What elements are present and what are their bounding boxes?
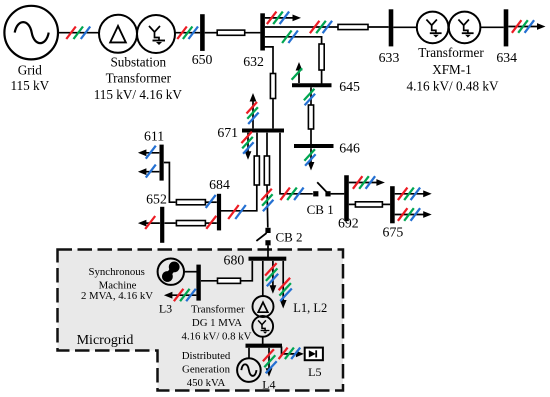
load arrow at bus 646 (down) [310,148,312,166]
wire line segment to bus 632 [244,32,260,34]
svg-text:671: 671 [217,125,238,140]
line segment 652-684 [176,221,205,226]
wire bus 632 toward bus 645 [265,37,322,44]
microgrid boundary box [58,250,344,391]
svg-text:Distributed: Distributed [182,350,231,362]
load arrow L4 (down) [268,348,270,373]
svg-text:650: 650 [192,52,213,67]
svg-text:Grid: Grid [18,62,43,77]
circuit breaker CB 1 contact square left [313,191,318,196]
wire bus 611 right and down to line segment 684-611 [164,163,176,203]
load arrow L1 (down) [272,261,274,290]
bus 632 [260,13,265,50]
svg-text:684: 684 [209,177,230,192]
phase marks a,b,c on 675 arrow 2 [398,208,408,221]
svg-text:Synchronous: Synchronous [89,266,145,278]
wire grid to substation transformer [58,32,100,34]
wire bus 633 to transformer XFM-1 [393,26,417,28]
CB 2 switch blade [256,233,266,241]
svg-text:Substation: Substation [110,55,166,70]
svg-text:Microgrid: Microgrid [77,333,134,348]
bus of distributed generation [246,344,283,348]
phase marks a,b,c before bus 650 [177,27,187,40]
svg-text:450 kVA: 450 kVA [187,377,226,389]
distributed generator symbol [237,358,261,382]
phase marks b,c on line 632-645 [282,31,292,44]
line segment L3-680 [218,278,241,283]
wire line segment to bus 633 [368,26,389,28]
phase mark c on 611 arrow 2 [146,165,156,178]
phase marks a,b,c on L2 arrow [279,278,291,290]
wire bus L3 to line segment [201,280,218,282]
svg-text:4.16 kV/ 0.48 kV: 4.16 kV/ 0.48 kV [407,78,499,93]
transformer DG 1 primary (delta) [253,296,274,317]
svg-text:L1, L2: L1, L2 [293,301,327,315]
svg-text:DG 1 MVA: DG 1 MVA [192,317,242,329]
load arrow at bus 652 (left) [142,222,160,224]
phase mark c on 611 arrow 1 [146,146,156,159]
phase mark a on line 652-684 [206,216,216,229]
wire transformer DG 1 to DG bus [262,337,264,344]
substation transformer T1 primary (delta) [99,15,137,53]
phase marks a,b,c on 671 down arrow [241,132,252,144]
synchronous machine symbol [158,259,184,285]
wire synchronous machine to bus L3 [184,271,197,273]
wire bus 632 to line segment 632-633 [265,26,339,28]
svg-text:680: 680 [224,253,245,268]
bus 646 [294,144,334,148]
load arrow 1 at bus 611 (left) [142,152,159,154]
svg-text:Transformer: Transformer [191,304,245,316]
bus 684 [217,194,221,231]
phase marks a,b,c on 692 load arrow [353,176,363,189]
phase marks a,b,c on 632 load arrow [267,12,277,25]
wire line segment to bus 684 [205,222,216,224]
phase mark b on 645 load arrow [292,68,303,80]
bus 652 [160,207,164,243]
transformer XFM-1 secondary (wye-ground) [449,12,481,44]
phase marks a,b,c on line 671-680 [261,189,272,201]
bus 634 [504,9,509,46]
svg-text:115 kV: 115 kV [10,78,49,93]
svg-text:692: 692 [338,216,359,231]
phase mark a on 652 arrow [145,216,155,229]
load arrow at bus 671 (up) [252,97,254,128]
phase marks a,b,c on L4 arrow [263,349,274,361]
wire line segment to bus 646 [310,129,312,144]
svg-text:633: 633 [379,50,400,65]
circuit breaker CB 2 contact square bottom [265,240,270,245]
phase marks a,b,c on 671 up arrow [247,102,258,114]
svg-text:611: 611 [144,128,164,143]
phase marks a,b,c on L5 wire [279,348,288,360]
svg-text:645: 645 [339,79,360,94]
wire bus 650 to line segment [205,32,218,34]
load arrow at bus 692 (right) [349,182,381,184]
load arrow 2 at bus 611 (left) [142,171,159,173]
bus 633 [389,9,394,46]
wire line segment to bus 684 [205,201,216,203]
bus 650 [200,14,205,51]
phase marks b,c on line 645-646 [304,89,315,100]
load arrow at bus 634 [508,26,541,28]
wire line segment to CB 2 [266,185,269,228]
load arrow L3 (left) [168,294,196,296]
line segment 645-646 [308,105,313,129]
svg-text:Transformer: Transformer [418,45,484,60]
load arrow at bus 645 (up) [298,66,300,83]
line segment 632-633 [338,24,368,29]
svg-text:646: 646 [339,140,360,155]
wire line segment to bus 645 [321,70,323,84]
svg-text:115 kV/ 4.16 kV: 115 kV/ 4.16 kV [94,87,183,102]
wire bus 692 to line segment 692-675 [349,203,356,205]
wire DG bus to load L5 [282,347,298,354]
bus 671 [242,129,284,133]
phase mark c on line 684-611 [206,195,216,208]
line segment 692-675 [355,202,382,207]
wire line segment to bus 671 [272,99,274,129]
svg-text:L4: L4 [262,377,275,391]
bus 611 [160,145,164,181]
CB 1 switch blade [317,182,327,192]
phase marks a,b,c on 634 load arrow [512,20,522,33]
circuit breaker CB 1 contact square right [325,191,330,196]
bus of synchronous machine (L3 bus) [196,265,200,301]
line segment 671-680 [264,156,269,185]
wire line segment up to bus 680 [241,261,253,281]
phase marks a,b,c on L3 arrow [174,289,184,301]
wire substation transformer to bus 650 [175,32,200,34]
line segment 632-645 [319,44,324,70]
circuit breaker CB 2 contact square top [265,228,270,233]
wire bus 632 down toward bus 671 [263,47,273,74]
line segment 650-632 [217,30,245,35]
load arrow L2 (down) [282,261,284,304]
svg-text:2 MVA, 4.16 kV: 2 MVA, 4.16 kV [81,290,153,302]
wire transformer XFM-1 to bus 634 [480,26,504,28]
phase marks a,c on line 671-684 [228,205,239,219]
load L5 converter box with diode [305,348,323,361]
svg-text:L3: L3 [159,302,172,316]
line segment 684-611 [176,200,205,205]
bus 675 [390,186,395,223]
svg-text:Generation: Generation [182,363,231,375]
phase marks a,b,c on 675 arrow 1 [398,188,408,201]
wire bus 671 down and right to CB 1 [280,133,313,194]
wire DG bus to generator [248,348,250,359]
transformer XFM-1 primary (wye-ground) [417,12,449,44]
phase marks a,b,c on line 671-692 [280,188,290,201]
load arrow 2 at bus 675 (right) [395,214,428,216]
bus 680 [249,257,287,261]
svg-text:CB 2: CB 2 [275,230,302,245]
wire bus 680 to transformer DG 1 [262,261,264,296]
svg-text:XFM-1: XFM-1 [432,62,472,77]
svg-text:632: 632 [243,54,264,69]
svg-text:L5: L5 [308,365,321,379]
wire bus 671 to line segment 671-684 [256,133,258,157]
svg-text:Transformer: Transformer [106,70,172,85]
utility grid source G [4,6,58,60]
wire CB 1 to bus 692 [331,193,345,195]
phase marks a,b,c on grid wire [66,27,76,40]
bus 645 [292,83,332,87]
wire bus 671 to line segment 671-680 [266,133,268,157]
substation transformer T1 secondary (wye-ground) [137,15,175,53]
svg-text:652: 652 [146,192,167,207]
transformer DG 1 secondary (wye-ground) [252,316,273,337]
bus 692 [344,175,349,221]
load arrow 1 at bus 675 (right) [395,193,428,195]
phase marks a,b,c on L1 arrow [265,263,277,276]
wire CB 2 to bus 680 [267,245,269,257]
load arrow at bus 671 (down) [247,133,249,156]
wire line segment to bus 675 [382,203,390,205]
phase marks b,c on 646 load arrow [304,149,315,161]
svg-text:CB 1: CB 1 [307,202,334,217]
load arrow at bus 632 [265,17,297,19]
svg-text:675: 675 [383,224,404,239]
svg-text:634: 634 [496,50,517,65]
svg-text:4.16 kV/ 0.8 kV: 4.16 kV/ 0.8 kV [182,331,252,343]
line segment 671-684 [254,156,259,185]
wire bus 645 to line segment 645-646 [310,87,312,105]
phase marks a,b,c on line 632-633 [310,21,320,33]
wire line segment down and left to bus 684 [221,185,257,211]
line segment 632-671 [270,74,275,99]
wire bus 652 to line segment 652-684 [165,222,176,224]
